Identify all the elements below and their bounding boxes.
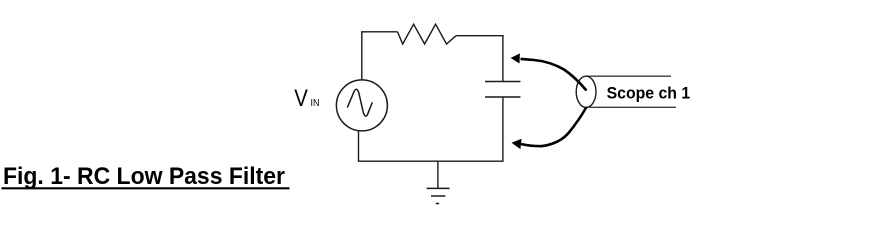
- probe arrow to bottom rail node: [512, 107, 587, 149]
- svg-text:Scope ch 1: Scope ch 1: [607, 85, 691, 103]
- resistor R1: [398, 24, 457, 44]
- wire top rail right segment: [456, 35, 504, 37]
- scope cable top line: [587, 75, 672, 77]
- AC source V1 circle: [336, 80, 387, 131]
- scope probe ellipse: [576, 76, 596, 107]
- wire bottom-left vertical (source bottom to bottom rail): [358, 131, 360, 162]
- ground symbol: [427, 188, 450, 203]
- label VIN: [294, 85, 319, 112]
- wire right vertical upper (to capacitor): [502, 36, 504, 82]
- AC source sine symbol: [347, 89, 372, 116]
- wire bottom rail: [359, 160, 504, 162]
- wire top rail left segment: [361, 31, 397, 33]
- ground stub wire: [437, 161, 439, 188]
- wire top-left vertical (source top to top rail): [361, 32, 363, 80]
- scope cable bottom line: [590, 106, 677, 108]
- probe arrow to capacitor top node: [511, 53, 587, 90]
- svg-text:V: V: [294, 85, 308, 112]
- svg-text:Fig. 1- RC Low Pass Filter: Fig. 1- RC Low Pass Filter: [3, 163, 285, 190]
- wire right vertical lower (capacitor to bottom rail): [502, 97, 504, 161]
- svg-text:IN: IN: [311, 97, 320, 109]
- capacitor C1: [485, 82, 521, 98]
- caption Fig. 1- RC Low Pass Filter: [2, 163, 290, 190]
